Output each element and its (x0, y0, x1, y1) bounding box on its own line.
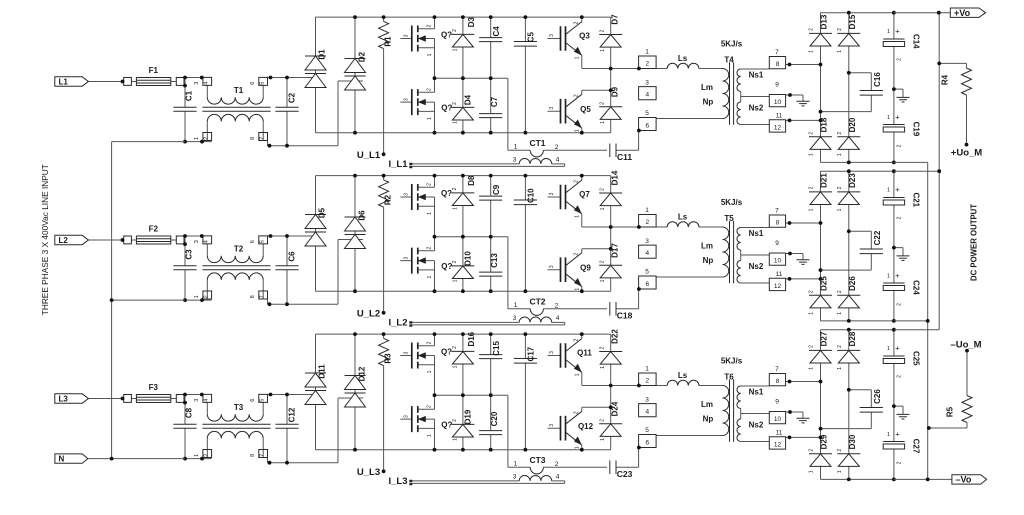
svg-text:D29: D29 (820, 434, 829, 449)
svg-text:1: 1 (809, 153, 815, 156)
svg-text:2: 2 (574, 94, 580, 97)
svg-text:2: 2 (809, 28, 815, 31)
svg-text:C9: C9 (492, 184, 501, 195)
svg-text:D30: D30 (848, 434, 857, 449)
svg-text:T5: T5 (724, 214, 734, 223)
svg-text:Q5: Q5 (580, 105, 591, 114)
svg-text:7: 7 (259, 137, 265, 140)
svg-text:2: 2 (452, 102, 458, 105)
svg-text:L3: L3 (59, 394, 69, 403)
svg-text:D25: D25 (820, 276, 829, 291)
svg-text:3: 3 (404, 98, 410, 101)
svg-text:2: 2 (600, 102, 606, 105)
svg-text:C13: C13 (490, 253, 499, 268)
svg-text:D17: D17 (611, 243, 620, 258)
svg-text:D14: D14 (611, 170, 620, 185)
svg-text:Ns2: Ns2 (749, 103, 764, 112)
svg-text:4: 4 (645, 91, 649, 98)
svg-text:–Vo: –Vo (956, 475, 972, 485)
svg-text:U_L3: U_L3 (357, 467, 380, 478)
svg-text:R3: R3 (384, 353, 393, 364)
svg-text:D18: D18 (820, 117, 829, 132)
svg-text:2: 2 (645, 60, 649, 67)
svg-text:T6: T6 (724, 372, 734, 381)
svg-text:F1: F1 (149, 66, 159, 75)
svg-text:C6: C6 (288, 251, 297, 262)
svg-text:R4: R4 (941, 74, 950, 85)
svg-text:+Vo: +Vo (954, 8, 971, 18)
svg-text:+: + (895, 113, 900, 122)
svg-text:D12: D12 (358, 366, 367, 381)
svg-text:1: 1 (887, 115, 890, 121)
svg-text:L2: L2 (59, 236, 69, 245)
svg-text:T2: T2 (234, 245, 244, 254)
svg-text:3: 3 (194, 82, 200, 85)
svg-text:Q9: Q9 (580, 264, 591, 273)
svg-text:4: 4 (556, 156, 560, 163)
svg-text:C25: C25 (912, 351, 921, 366)
svg-text:2: 2 (427, 24, 433, 27)
svg-text:D4: D4 (464, 94, 473, 105)
svg-text:10: 10 (774, 99, 782, 106)
svg-text:C3: C3 (185, 249, 194, 260)
svg-text:3: 3 (404, 34, 410, 37)
svg-text:Q11: Q11 (577, 349, 592, 358)
svg-text:N: N (59, 454, 65, 463)
svg-text:D20: D20 (848, 117, 857, 132)
svg-text:2: 2 (574, 21, 580, 24)
svg-text:C20: C20 (490, 411, 499, 426)
svg-text:1: 1 (837, 153, 843, 156)
svg-text:Np: Np (703, 98, 714, 107)
svg-text:D22: D22 (611, 329, 620, 344)
svg-text:C19: C19 (912, 122, 921, 137)
svg-text:D2: D2 (358, 51, 367, 62)
svg-text:D9: D9 (611, 86, 620, 97)
svg-text:CT2: CT2 (529, 296, 545, 306)
svg-text:3: 3 (513, 157, 517, 164)
svg-text:C12: C12 (288, 407, 297, 422)
svg-text:F2: F2 (149, 224, 159, 233)
svg-text:1: 1 (837, 50, 843, 53)
svg-text:R1: R1 (384, 36, 393, 47)
svg-text:C2: C2 (288, 92, 297, 103)
svg-text:2: 2 (204, 137, 210, 140)
svg-text:4: 4 (204, 82, 210, 85)
svg-text:D11: D11 (318, 364, 327, 379)
svg-text:C18: C18 (617, 311, 633, 321)
svg-text:D10: D10 (464, 251, 473, 266)
svg-text:U_L2: U_L2 (357, 309, 380, 320)
svg-text:–Uo_M: –Uo_M (950, 340, 981, 351)
svg-text:D27: D27 (820, 331, 829, 346)
svg-text:C21: C21 (912, 192, 921, 207)
svg-text:C7: C7 (490, 96, 499, 107)
svg-text:DC POWER OUTPUT: DC POWER OUTPUT (970, 204, 979, 281)
svg-text:7: 7 (775, 49, 779, 56)
svg-text:C14: C14 (912, 34, 921, 49)
svg-text:11: 11 (776, 112, 783, 119)
svg-text:1: 1 (427, 53, 433, 56)
svg-text:R2: R2 (384, 194, 393, 205)
svg-text:D26: D26 (848, 276, 857, 291)
svg-text:C4: C4 (492, 26, 501, 37)
svg-text:D19: D19 (464, 409, 473, 424)
svg-text:Q12: Q12 (578, 422, 594, 431)
svg-text:D24: D24 (611, 401, 620, 416)
svg-text:D1: D1 (318, 49, 327, 60)
svg-text:Q3: Q3 (579, 32, 590, 41)
svg-text:3: 3 (645, 79, 649, 86)
svg-text:5: 5 (259, 82, 265, 85)
svg-text:C26: C26 (873, 389, 882, 404)
svg-text:C5: C5 (527, 32, 536, 43)
svg-text:1: 1 (645, 49, 649, 56)
svg-text:D5: D5 (318, 207, 327, 218)
svg-text:+: + (895, 27, 900, 36)
svg-text:I_L2: I_L2 (388, 318, 407, 329)
svg-text:CT3: CT3 (529, 455, 545, 465)
svg-text:2: 2 (600, 29, 606, 32)
svg-text:1: 1 (575, 56, 581, 59)
svg-text:L1: L1 (59, 77, 69, 86)
svg-text:1: 1 (514, 144, 518, 151)
svg-text:1: 1 (453, 48, 459, 51)
svg-text:D23: D23 (848, 173, 857, 188)
svg-text:T1: T1 (234, 86, 244, 95)
svg-text:THREE PHASE 3 X 400Vac LINE IN: THREE PHASE 3 X 400Vac LINE INPUT (40, 164, 50, 315)
svg-text:3: 3 (549, 34, 555, 37)
svg-text:2: 2 (427, 88, 433, 91)
svg-text:2: 2 (837, 132, 843, 135)
svg-text:2: 2 (555, 144, 559, 151)
svg-text:Ns1: Ns1 (749, 71, 764, 80)
svg-text:C11: C11 (617, 152, 632, 162)
svg-text:8: 8 (250, 137, 256, 140)
svg-text:9: 9 (775, 82, 779, 89)
svg-text:I_L1: I_L1 (388, 159, 408, 170)
svg-text:D6: D6 (358, 210, 367, 221)
svg-text:12: 12 (774, 125, 782, 132)
svg-text:C15: C15 (492, 341, 501, 356)
svg-text:C24: C24 (912, 280, 921, 295)
svg-text:D8: D8 (467, 175, 476, 186)
svg-text:3: 3 (549, 107, 555, 110)
svg-text:D7: D7 (611, 14, 620, 25)
svg-text:2: 2 (452, 29, 458, 32)
svg-text:U_L1: U_L1 (357, 150, 381, 161)
svg-text:C16: C16 (873, 72, 882, 87)
svg-text:C1: C1 (185, 90, 194, 101)
svg-text:5KJ/s: 5KJ/s (721, 40, 743, 49)
svg-text:1: 1 (887, 29, 890, 35)
svg-text:D28: D28 (848, 331, 857, 346)
svg-text:F3: F3 (149, 383, 159, 392)
svg-text:Ls: Ls (678, 54, 688, 63)
svg-text:C27: C27 (912, 439, 921, 454)
svg-text:6: 6 (645, 122, 649, 129)
svg-text:CT1: CT1 (529, 138, 545, 148)
svg-text:Q7: Q7 (579, 190, 590, 199)
svg-text:1: 1 (194, 137, 200, 140)
svg-text:D3: D3 (467, 17, 476, 28)
svg-text:5: 5 (645, 110, 649, 117)
svg-text:C8: C8 (185, 407, 194, 418)
svg-text:1: 1 (427, 117, 433, 120)
svg-text:C17: C17 (527, 346, 536, 361)
svg-text:I_L3: I_L3 (388, 476, 407, 487)
svg-text:2: 2 (837, 28, 843, 31)
svg-text:C23: C23 (617, 469, 633, 479)
svg-text:D13: D13 (820, 14, 829, 29)
svg-text:D21: D21 (820, 173, 829, 188)
svg-text:Lm: Lm (701, 83, 713, 92)
svg-text:D15: D15 (848, 14, 857, 29)
svg-text:R5: R5 (946, 406, 955, 417)
svg-text:D16: D16 (467, 331, 476, 346)
svg-text:T3: T3 (234, 403, 244, 412)
svg-text:8: 8 (776, 61, 780, 68)
svg-text:2: 2 (897, 144, 903, 147)
svg-text:C10: C10 (527, 188, 536, 203)
svg-text:1: 1 (600, 121, 606, 124)
svg-text:1: 1 (575, 129, 581, 132)
svg-text:2: 2 (897, 58, 903, 61)
svg-text:6: 6 (250, 82, 256, 85)
svg-text:2: 2 (809, 132, 815, 135)
svg-text:Q?: Q? (441, 30, 452, 39)
svg-text:1: 1 (453, 121, 459, 124)
svg-text:+Uo_M: +Uo_M (951, 147, 982, 158)
svg-text:1: 1 (600, 49, 606, 52)
svg-text:T4: T4 (724, 55, 734, 64)
svg-text:Q?: Q? (441, 103, 452, 112)
svg-text:C22: C22 (873, 230, 882, 245)
svg-text:1: 1 (809, 50, 815, 53)
